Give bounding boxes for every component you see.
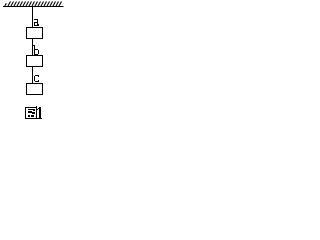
- box a: [27, 28, 43, 39]
- string 1: ceiling to box a: [32, 7, 34, 27]
- ceiling hatching: [5, 2, 62, 7]
- caption 图: [26, 106, 38, 119]
- string 2: box a to box b: [32, 38, 34, 56]
- label a: [34, 19, 39, 26]
- label c: [34, 75, 39, 82]
- caption 1: [37, 107, 42, 119]
- box c: [27, 84, 43, 95]
- box b: [27, 56, 43, 67]
- label b: [33, 45, 39, 55]
- string 3: box b to box c: [32, 66, 34, 84]
- ceiling baseline: [3, 6, 64, 8]
